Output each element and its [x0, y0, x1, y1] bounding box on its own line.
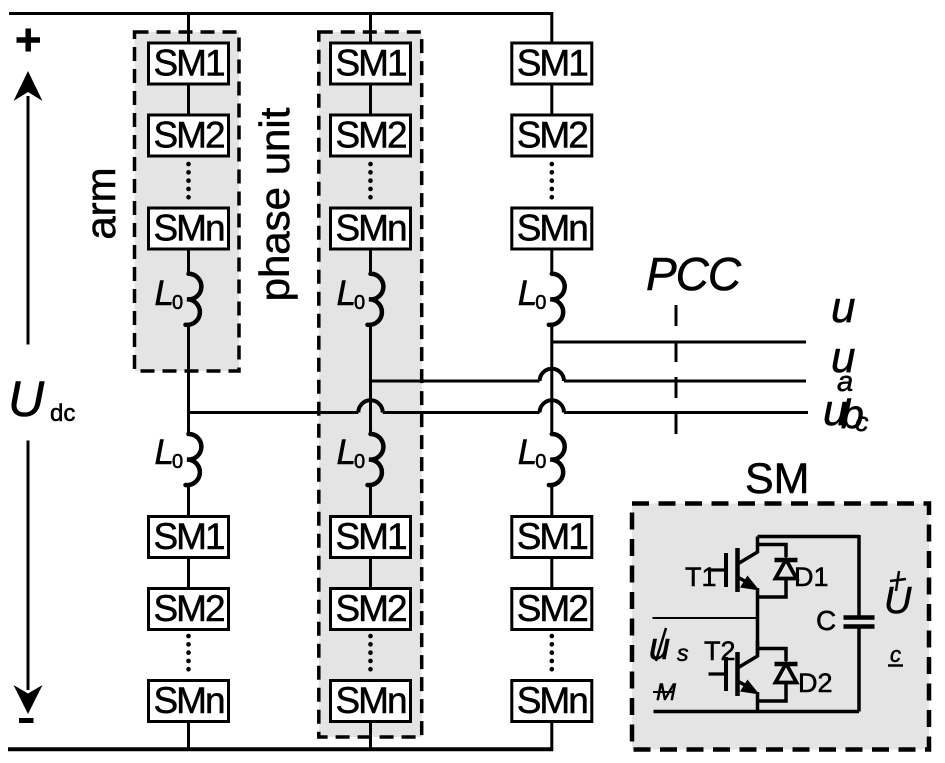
svg-text:SMn: SMn [335, 680, 406, 721]
submodule SMn (upper arm b) [331, 208, 411, 250]
submodule SM1 (upper arm c) [512, 43, 592, 85]
svg-text:D1: D1 [794, 562, 829, 592]
svg-text:SMn: SMn [517, 680, 588, 721]
bottom DC bus wire [8, 747, 553, 751]
submodule SMn (lower arm c) [512, 680, 592, 722]
label D1 [794, 562, 829, 592]
wire: lower inductor to SM1 lower arm c [550, 485, 553, 518]
dotted continuation upper arm a [186, 164, 191, 203]
label L0 lower arm c [518, 433, 547, 473]
inductor L0 lower arm c [549, 434, 565, 485]
svg-text:C: C [816, 605, 836, 636]
capacitor C [844, 535, 875, 712]
svg-text:SM2: SM2 [335, 115, 406, 156]
wire: inductor to AC node a and to lower inductor [187, 324, 190, 435]
label UC with polarity [884, 571, 912, 667]
submodule SM2 (upper arm c) [512, 115, 592, 157]
svg-text:SMn: SMn [153, 680, 224, 721]
svg-text:PCC: PCC [646, 248, 742, 300]
wire: SM1-SM2 lower arm c [550, 558, 553, 590]
diode D1 [758, 545, 798, 598]
wire: SMn to bottom bus lower arm c [550, 722, 553, 750]
Udc arrow shaft upper [27, 96, 30, 345]
label phase unit (rotated) [251, 107, 298, 301]
svg-text:SMn: SMn [335, 208, 406, 249]
submodule SM2 (upper arm a) [149, 115, 229, 157]
label SM (detail title) [745, 455, 810, 503]
label L0 lower arm a [155, 433, 184, 473]
svg-text:SM1: SM1 [153, 43, 224, 84]
wire: lower inductor to SM1 lower arm b [369, 485, 372, 518]
wire: SM input terminal [653, 617, 758, 619]
svg-text:SM2: SM2 [153, 588, 224, 629]
inductor L0 upper arm b [368, 274, 384, 325]
SM detail dashed box [632, 504, 929, 750]
svg-text:D2: D2 [798, 668, 833, 698]
submodule SM1 (lower arm c) [512, 516, 592, 558]
wire: top bus to SM1 upper arm c [550, 12, 553, 44]
label L0 upper arm b [337, 274, 366, 314]
svg-text:0: 0 [172, 451, 183, 473]
label ua [831, 283, 855, 332]
label C [816, 605, 836, 636]
transistor T2 (IGBT) [709, 641, 760, 697]
submodule SM1 (lower arm a) [149, 516, 229, 558]
svg-text:0: 0 [535, 451, 546, 473]
svg-text:SMn: SMn [517, 208, 588, 249]
wire: SM1-SM2 upper arm b [369, 84, 372, 116]
label PCC [646, 248, 742, 300]
label ub [831, 333, 855, 398]
svg-text:T1: T1 [685, 562, 717, 592]
top DC bus wire [9, 12, 552, 15]
svg-text:SM1: SM1 [335, 516, 406, 557]
inductor L0 upper arm a [186, 274, 202, 325]
svg-text:U: U [8, 371, 45, 427]
svg-text:0: 0 [354, 292, 365, 314]
phase c AC line (uc) with hops over legs b and c [189, 400, 809, 412]
label L0 lower arm b [337, 433, 366, 473]
wire: SMn to inductor upper arm b [369, 249, 372, 275]
svg-text:s: s [677, 640, 689, 666]
svg-text:0: 0 [354, 451, 365, 473]
svg-text:SM2: SM2 [517, 115, 588, 156]
dotted continuation lower arm b [368, 636, 373, 676]
phase unit dashed box (leg b) [319, 32, 422, 737]
plus terminal [17, 29, 41, 52]
svg-text:SM2: SM2 [335, 588, 406, 629]
svg-text:0: 0 [172, 292, 183, 314]
svg-text:SM1: SM1 [517, 43, 588, 84]
wire: SMn to inductor upper arm a [187, 249, 190, 275]
svg-text:U: U [884, 580, 912, 622]
dotted continuation upper arm c [549, 164, 554, 203]
submodule SMn (lower arm b) [331, 680, 411, 722]
label L0 upper arm c [518, 274, 547, 314]
wire: lower inductor to SM1 lower arm a [187, 485, 190, 518]
svg-text:arm: arm [77, 167, 124, 239]
diode D2 [758, 649, 798, 702]
svg-text:SM1: SM1 [335, 43, 406, 84]
PCC dashed boundary line [675, 305, 678, 437]
submodule SM2 (lower arm b) [331, 588, 411, 630]
svg-text:c: c [890, 642, 901, 667]
label uS (input voltage) [649, 626, 689, 668]
label uc [823, 386, 869, 437]
submodule SM1 (upper arm b) [331, 43, 411, 85]
Udc up arrow head [14, 71, 43, 101]
wire: SM1-SM2 upper arm a [187, 84, 190, 116]
svg-text:phase unit: phase unit [251, 107, 298, 301]
label Udc [8, 371, 75, 427]
wire: top bus to SM1 upper arm a [187, 12, 190, 44]
label M (minus mark) [653, 679, 676, 706]
svg-text:c: c [855, 407, 869, 437]
wire: inductor to AC node c and to lower inductor [550, 324, 553, 435]
label arm (rotated) [77, 167, 124, 239]
dotted continuation upper arm b [368, 164, 373, 203]
submodule SM2 (upper arm b) [331, 115, 411, 157]
svg-text:SM2: SM2 [517, 588, 588, 629]
svg-text:0: 0 [535, 292, 546, 314]
svg-text:SMn: SMn [153, 208, 224, 249]
submodule SMn (upper arm c) [512, 208, 592, 250]
wire: SMn to bottom bus lower arm b [369, 722, 372, 750]
wire: top bus to SM1 upper arm b [369, 12, 372, 44]
minus terminal [19, 718, 34, 723]
wire: T1 emitter to T2 collector (mid node) [756, 588, 760, 655]
inductor L0 upper arm c [549, 274, 565, 325]
node A / phase a AC line (ua) [552, 341, 806, 344]
wire: SM1-SM2 upper arm c [550, 84, 553, 116]
wire: SM1-SM2 lower arm a [187, 558, 190, 590]
label T1 [685, 562, 717, 592]
submodule SM1 (upper arm a) [149, 43, 229, 85]
svg-text:SM2: SM2 [153, 115, 224, 156]
svg-text:T2: T2 [704, 636, 736, 666]
label L0 upper arm a [155, 274, 184, 314]
svg-text:SM1: SM1 [517, 516, 588, 557]
Udc down arrow head [14, 685, 43, 714]
label D2 [798, 668, 833, 698]
inductor L0 lower arm a [186, 434, 202, 485]
dotted continuation lower arm c [549, 636, 554, 676]
wire: inductor to AC node b and to lower inductor [369, 324, 372, 435]
submodule SMn (upper arm a) [149, 208, 229, 250]
submodule SM2 (lower arm c) [512, 588, 592, 630]
wire: SMn to bottom bus lower arm a [187, 722, 190, 750]
inductor L0 lower arm b [368, 434, 384, 485]
submodule SM2 (lower arm a) [149, 588, 229, 630]
wire: SMn to inductor upper arm c [550, 249, 553, 275]
submodule SMn (lower arm a) [149, 680, 229, 722]
transistor T1 (IGBT) [709, 537, 760, 593]
svg-text:SM1: SM1 [153, 516, 224, 557]
wire: SM1-SM2 lower arm b [369, 558, 372, 590]
wire: T2 emitter to bottom rail [756, 692, 760, 712]
Udc arrow shaft lower [27, 441, 30, 691]
phase b AC line (ub) with hop over leg c [371, 369, 807, 381]
submodule SM1 (lower arm b) [331, 516, 411, 558]
svg-text:dc: dc [50, 400, 75, 427]
label T2 [704, 636, 736, 666]
dotted continuation lower arm a [186, 636, 191, 676]
wire: SM top rail [758, 535, 860, 539]
wire: SM bottom rail [654, 710, 860, 714]
svg-text:SM: SM [745, 455, 810, 503]
svg-text:u: u [831, 283, 855, 332]
arm dashed box (leg a upper arm) [135, 32, 240, 371]
